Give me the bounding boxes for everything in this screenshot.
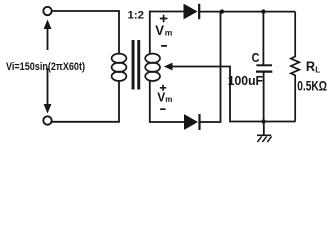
- svg-text:100uF: 100uF: [228, 73, 263, 88]
- svg-text:1:2: 1:2: [128, 9, 145, 21]
- svg-text:m: m: [165, 95, 172, 104]
- svg-text:0.5KΩ: 0.5KΩ: [297, 78, 327, 93]
- svg-text:R: R: [306, 58, 315, 74]
- svg-text:C: C: [252, 50, 260, 65]
- svg-text:Vi=150sin(2πX60t): Vi=150sin(2πX60t): [6, 61, 85, 73]
- svg-text:L: L: [315, 65, 320, 74]
- svg-text:m: m: [165, 27, 173, 37]
- svg-text:V: V: [155, 22, 164, 38]
